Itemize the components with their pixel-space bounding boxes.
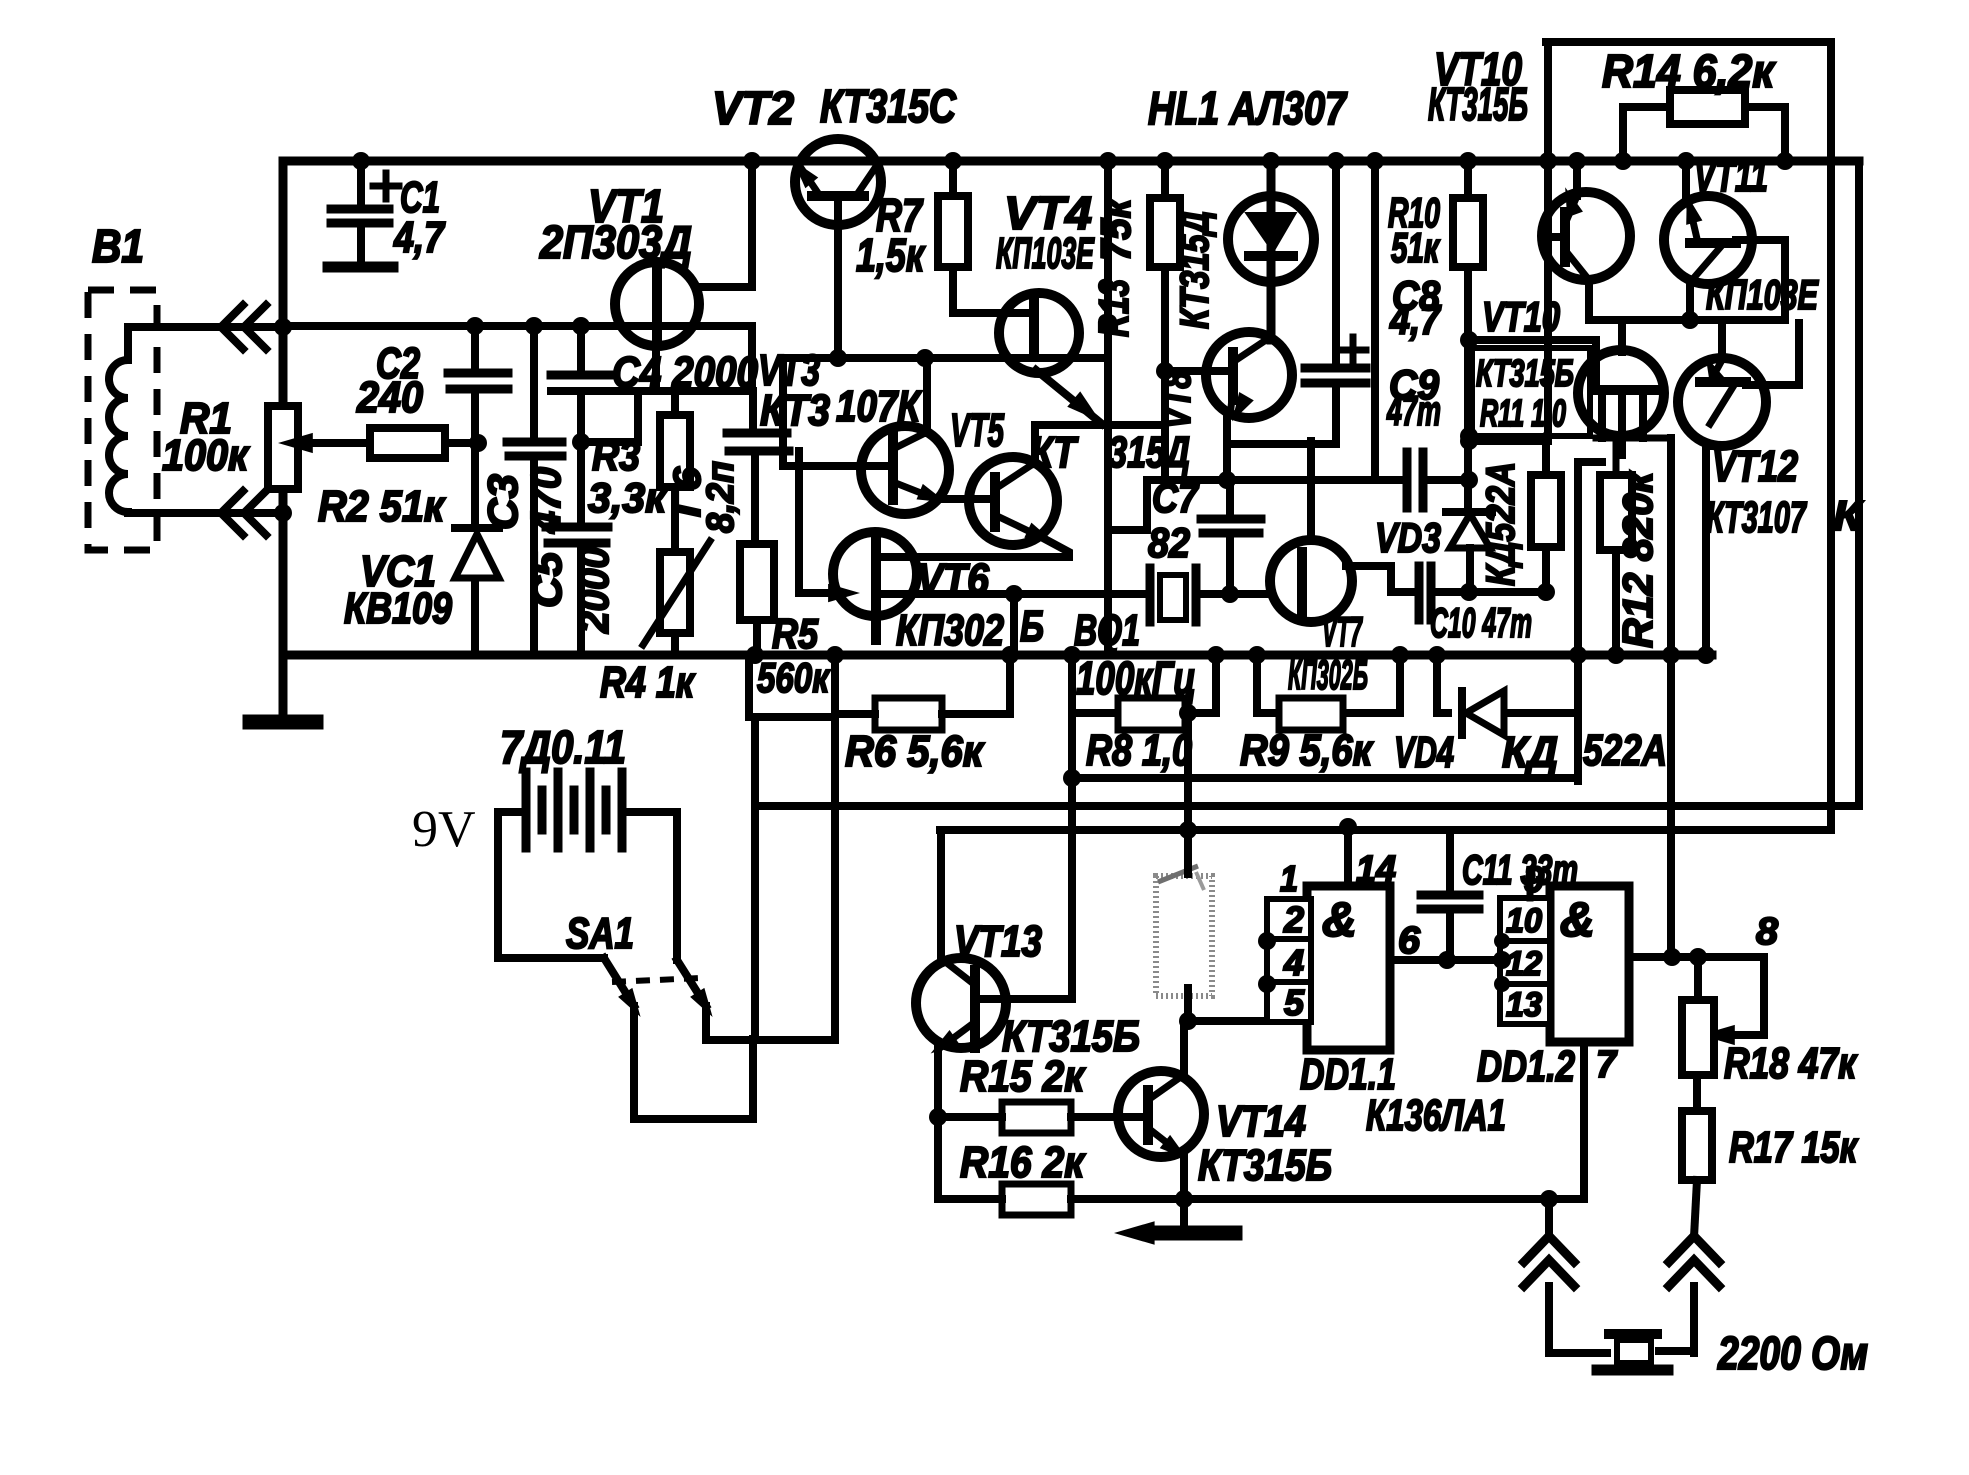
transistor VT8: [1206, 332, 1292, 426]
thermistor R4: [643, 510, 710, 655]
svg-text:13: 13: [1506, 986, 1542, 1024]
resistor R5: [740, 544, 774, 620]
transistor VT7 (FET): [1270, 540, 1352, 622]
wire: box left x1548: [1544, 42, 1552, 441]
wire: VT12 collector: [1718, 320, 1726, 358]
wire: VD3 to C10 line: [1466, 548, 1474, 592]
transistor VT2: [787, 139, 881, 225]
wire: C11 stem: [1446, 830, 1454, 960]
pin box 2: [1267, 899, 1311, 940]
label C6 rotated: [667, 461, 742, 533]
label HL1: [1148, 82, 1348, 134]
wire: VT5 emitter to VT6 drain: [878, 538, 1069, 557]
wire: R3 stem: [671, 391, 679, 510]
label 9V: [412, 801, 476, 858]
wire: R9 loop: [1257, 655, 1400, 713]
capacitor C9: [1407, 452, 1423, 508]
pin box 12: [1500, 941, 1550, 984]
resistor R18: [1682, 1000, 1714, 1075]
svg-text:R2 51к: R2 51к: [318, 482, 446, 531]
capacitor C10: [1419, 566, 1431, 620]
wire: x755 vertical: [751, 717, 759, 1039]
svg-text:R4 1к: R4 1к: [600, 658, 696, 707]
wire: VT6 gate feedback: [799, 451, 860, 602]
svg-text:С3: С3: [479, 474, 526, 530]
svg-text:7: 7: [1596, 1044, 1618, 1086]
wire: bottom common rail: [283, 651, 1712, 660]
label C10: [1430, 599, 1532, 646]
wire: x1859 vertical: [1855, 161, 1863, 806]
svg-text:240: 240: [356, 373, 423, 422]
logic DD1.1 box: [1307, 886, 1390, 1050]
wire: HL1 stems: [1267, 161, 1276, 340]
svg-text:SА1: SА1: [566, 909, 634, 958]
label K136LA1: [1366, 1091, 1506, 1140]
svg-text:КТ: КТ: [1030, 428, 1079, 477]
wire: R6 wires: [835, 655, 1010, 714]
svg-text:КП103Е: КП103Е: [996, 229, 1095, 278]
svg-text:100к: 100к: [162, 431, 250, 480]
label VT1: [539, 180, 692, 268]
svg-text:12: 12: [1506, 945, 1542, 983]
label pin6: [1398, 920, 1421, 962]
wire: R11 top link: [1469, 441, 1546, 475]
label pin1: [1280, 858, 1298, 899]
label R7: [856, 189, 926, 281]
wire: y778 line: [1072, 774, 1578, 782]
label KT315D: [1030, 428, 1190, 477]
wire: VT10 left jog: [1578, 458, 1602, 466]
label VT3: [758, 346, 922, 435]
svg-text:С5: С5: [523, 551, 570, 608]
label VT6: [917, 555, 989, 604]
resistor R6: [875, 698, 942, 730]
resistor R8: [1118, 698, 1185, 730]
svg-text:VТ14: VТ14: [1216, 1097, 1306, 1146]
wire: VT5 collector: [1035, 425, 1165, 462]
svg-text:3,3к: 3,3к: [588, 474, 668, 521]
wire: VT13 base: [978, 995, 1072, 1003]
label VT13 type: [1002, 1012, 1140, 1061]
wire: R13 branch: [1161, 161, 1169, 480]
svg-text:КТ315Б: КТ315Б: [1428, 78, 1528, 130]
svg-text:VТ7: VТ7: [1322, 608, 1363, 655]
resistor R16: [1002, 1184, 1071, 1215]
label VT13: [954, 917, 1042, 966]
label VT7 type: [1288, 651, 1368, 698]
wire: VT1 source to rail: [699, 161, 752, 287]
svg-text:НL1 АЛ307: НL1 АЛ307: [1148, 82, 1348, 134]
label R3: [588, 432, 668, 521]
jack chevron left: [1524, 1199, 1607, 1353]
capacitor C8: [1305, 368, 1366, 383]
svg-text:R11 1,0: R11 1,0: [1480, 393, 1566, 435]
label C1: [393, 173, 446, 262]
svg-text:51к: 51к: [1391, 224, 1440, 271]
pin dots DD1.2: [1494, 933, 1510, 992]
wire: R7 stem: [953, 161, 1034, 313]
svg-text:КТ315С: КТ315С: [820, 80, 957, 132]
svg-text:2П303Д: 2П303Д: [539, 216, 692, 268]
svg-text:10: 10: [1506, 902, 1542, 940]
wire: link y442: [581, 391, 638, 442]
svg-text:R13: R13: [1090, 279, 1137, 337]
transistor VT3: [861, 426, 950, 514]
label C8: [1389, 272, 1441, 343]
wire: x1014 down: [1010, 594, 1018, 655]
label KP103E: [1706, 271, 1819, 318]
svg-text:315Д: 315Д: [1108, 428, 1190, 477]
ground: [250, 655, 316, 722]
svg-text:R17 15к: R17 15к: [1729, 1123, 1859, 1172]
label R17: [1729, 1123, 1859, 1172]
label R14: [1602, 45, 1776, 97]
wire: R18 top: [1694, 957, 1702, 1000]
wire: VT3 collector: [923, 356, 931, 433]
wire: VT9 emitter: [1585, 280, 1593, 320]
label KT315D rotated: [1173, 211, 1217, 329]
svg-text:1: 1: [1280, 858, 1298, 899]
diode VD3: [1446, 512, 1492, 548]
label R2: [318, 482, 446, 531]
label VT7: [1322, 608, 1363, 655]
label 2200 Ohm: [1717, 1327, 1868, 1379]
label R8: [1086, 726, 1192, 775]
wire: C10 line: [1391, 588, 1546, 596]
label BQ1: [1074, 606, 1140, 655]
resistor R15: [1002, 1102, 1071, 1133]
svg-text:9V: 9V: [412, 801, 476, 858]
resistor R10: [1453, 198, 1483, 267]
wire: battery right: [622, 812, 677, 960]
label R5: [757, 610, 830, 701]
wire: VT9 collector: [1573, 161, 1581, 196]
wire: VT13 emitter: [934, 1048, 942, 1199]
svg-text:75к: 75к: [1092, 197, 1139, 261]
label pin7: [1596, 1044, 1618, 1086]
wire: VT13 collector: [937, 830, 945, 960]
svg-text:9: 9: [1524, 859, 1544, 900]
svg-text:С10 47т: С10 47т: [1430, 599, 1532, 646]
pin dots: [1258, 932, 1276, 993]
svg-text:R9 5,6к: R9 5,6к: [1240, 726, 1374, 775]
svg-text:4,7: 4,7: [1389, 296, 1441, 343]
resistor R13: [1150, 198, 1180, 267]
wire: VT7 to C10: [1346, 566, 1413, 592]
transistor VT6 (FET): [833, 532, 917, 640]
svg-text:4,7: 4,7: [393, 213, 446, 262]
label C7: [1148, 474, 1199, 566]
wire: VT10 link y340: [1469, 340, 1596, 390]
wire: x1072 vertical: [1006, 713, 1072, 999]
crystal BQ1: [1150, 568, 1196, 622]
svg-text:КТ315Б: КТ315Б: [1198, 1141, 1332, 1190]
wire: C1 stem: [357, 161, 365, 262]
label B1: [92, 220, 144, 272]
label pin8: [1756, 911, 1779, 953]
label R15: [960, 1052, 1086, 1101]
svg-text:DD1.2: DD1.2: [1477, 1042, 1575, 1091]
wire: pin8 wire: [1629, 953, 1764, 961]
wire: VT10 top stem: [1618, 320, 1626, 352]
svg-text:R5: R5: [772, 610, 819, 657]
svg-text:82: 82: [1148, 519, 1190, 566]
label VD4: [1394, 726, 1667, 777]
inductor B1 coil: [109, 327, 283, 513]
wire: C7 branch: [1226, 480, 1234, 594]
svg-text:8,2п: 8,2п: [700, 461, 742, 533]
resistor R7: [938, 196, 968, 267]
svg-text:R6 5,6к: R6 5,6к: [845, 727, 985, 776]
wire: pin9 stub: [1527, 878, 1534, 898]
capacitor C6: [727, 433, 789, 451]
resistor R9: [1279, 698, 1343, 730]
wire: R11 bottom: [1542, 547, 1550, 592]
wire: VT1 gate stem: [652, 346, 660, 391]
transistor VT10: [1578, 350, 1664, 455]
label C1 plus: [373, 173, 399, 199]
transistor VT1 (FET): [615, 262, 699, 346]
wire: C9 line: [1147, 476, 1469, 484]
varicap VC1: [455, 528, 499, 578]
wire: crystal to VT7: [1196, 590, 1271, 598]
wire: x835 vertical: [831, 655, 839, 1036]
label VT10 lower: [1482, 293, 1560, 340]
svg-text:6: 6: [1398, 920, 1421, 962]
transistor VT12: [1678, 352, 1766, 446]
svg-text:С4 2000: С4 2000: [612, 348, 758, 397]
led HL1: [1228, 196, 1314, 282]
label C3 rotated: [479, 467, 569, 534]
label SA1: [566, 909, 634, 958]
wire: gate node line y391: [551, 387, 752, 395]
svg-text:КД: КД: [1502, 728, 1558, 777]
svg-text:VD3: VD3: [1375, 514, 1441, 561]
wire: C6 stem: [753, 391, 755, 544]
wire: x1671 long: [1667, 438, 1675, 957]
wire: VT3 emitter to VT5 base: [936, 495, 993, 503]
label VT2: [712, 80, 957, 134]
wire: R18 loop: [1700, 957, 1764, 1045]
label battery: [500, 721, 626, 773]
wire: VT10 comb: [1596, 438, 1671, 475]
resistor R2: [370, 428, 445, 458]
capacitor C1: [328, 209, 393, 267]
wire: R10 branch: [1464, 161, 1472, 512]
svg-text:КД522А: КД522А: [1479, 462, 1523, 586]
svg-text:2000: 2000: [570, 547, 617, 634]
capacitor C11: [1421, 895, 1479, 909]
wire: node line y356: [783, 354, 1108, 362]
svg-text:&: &: [1322, 894, 1357, 947]
label VT4: [996, 187, 1095, 278]
wire: SA1 right pole: [706, 1006, 835, 1040]
label 100kHz: [1076, 652, 1196, 704]
svg-text:R12 820к: R12 820к: [1614, 470, 1661, 648]
transistor VT5: [969, 457, 1058, 550]
phone BF1 2200 Ohm: [1597, 1286, 1694, 1370]
capacitor C5: [546, 527, 608, 543]
wire: box right x1831: [1827, 42, 1835, 829]
svg-text:5: 5: [1284, 982, 1305, 1023]
wire: R16 wires: [938, 1195, 1184, 1203]
wire: VT11 emitter: [1686, 280, 1694, 320]
pin box 4: [1267, 939, 1311, 983]
wire: C8 stem: [1332, 161, 1340, 444]
label DD1.2: [1477, 1042, 1575, 1091]
svg-text:VТ11: VТ11: [1694, 152, 1768, 201]
label VT8 rotated: [1155, 370, 1199, 429]
wire: battery left: [498, 812, 604, 958]
label R6: [845, 727, 985, 776]
pin box 5: [1267, 982, 1311, 1023]
inductor B1 dashed box: [88, 290, 157, 550]
svg-text:8: 8: [1756, 911, 1779, 953]
label K stray: [1833, 492, 1864, 539]
svg-text:VТ2: VТ2: [712, 82, 794, 134]
label DD1.1 amp: [1322, 894, 1357, 947]
capacitor C2: [448, 373, 508, 389]
transistor VT4 (FET): [999, 293, 1107, 429]
wire: VD4 loop: [1437, 655, 1578, 713]
wire: VT14 base: [1120, 1113, 1148, 1121]
wire: R8 loop: [1072, 655, 1216, 713]
wire: VT11 collector: [1682, 161, 1690, 200]
label KD522A rotated: [1479, 462, 1523, 586]
label VT14: [1198, 1097, 1332, 1190]
ground at VT14: [1114, 1221, 1235, 1245]
svg-text:Б: Б: [1020, 602, 1044, 651]
svg-text:R14 6,2к: R14 6,2к: [1602, 45, 1776, 97]
label C8 plus: [1340, 337, 1366, 363]
svg-text:R3: R3: [592, 432, 640, 479]
label pin14: [1356, 849, 1396, 891]
wire: VT2 emitter-collector stem: [834, 196, 842, 358]
label pin9: [1524, 859, 1544, 900]
wire: VT8 base: [1165, 367, 1233, 375]
label R9: [1240, 726, 1374, 775]
resistor R1 (pot): [268, 406, 298, 489]
svg-text:2: 2: [1283, 899, 1304, 940]
wire: +9V top supply rail: [283, 157, 1859, 166]
svg-text:VТ13: VТ13: [954, 917, 1042, 966]
pin box 13: [1500, 984, 1550, 1024]
wire: VT14 collector: [1180, 1021, 1188, 1076]
svg-text:107К: 107К: [836, 382, 922, 431]
label VT5: [950, 404, 1005, 456]
svg-text:14: 14: [1356, 849, 1396, 891]
svg-text:2200 Ом: 2200 Ом: [1717, 1327, 1868, 1379]
wire: R5 loop: [749, 655, 835, 717]
svg-text:VТ5: VТ5: [950, 404, 1005, 456]
wire: C3 branch: [530, 326, 538, 655]
battery GB1 7D0.11: [526, 772, 622, 848]
label R18: [1724, 1039, 1858, 1088]
capacitor C4: [551, 371, 612, 380]
svg-text:&: &: [1560, 894, 1595, 947]
wire: pin5 wire: [1188, 1017, 1267, 1025]
wire: VT9 base: [1548, 233, 1565, 241]
wire: y436 link: [1469, 432, 1472, 440]
label KP302B: [896, 602, 1044, 655]
label box VT10: [1472, 348, 1590, 436]
label C11: [1462, 846, 1578, 893]
label VT12: [1706, 442, 1808, 542]
switch SA1: [604, 958, 720, 1021]
svg-text:522А: 522А: [1583, 726, 1667, 775]
resistor R11: [1531, 475, 1561, 547]
wire: C2 VC1 branch: [471, 326, 479, 655]
transistor VT11: [1664, 193, 1752, 284]
svg-text:КП302Б: КП302Б: [1288, 651, 1368, 698]
svg-text:К136ЛА1: К136ЛА1: [1366, 1091, 1506, 1140]
label R4: [600, 658, 696, 707]
wire: R2 to VC1 line: [445, 439, 478, 447]
svg-text:КТ3107: КТ3107: [1706, 493, 1808, 542]
svg-text:560к: 560к: [757, 654, 830, 701]
wire: R12 bottom: [1612, 550, 1620, 655]
svg-text:R15 2к: R15 2к: [960, 1052, 1086, 1101]
wire: C4 C5 branch: [577, 326, 585, 655]
svg-text:R16 2к: R16 2к: [960, 1138, 1086, 1187]
label C2: [356, 339, 423, 422]
wire: R17 leads: [1694, 1075, 1697, 1237]
wire: VT12 base: [1746, 323, 1799, 385]
resistor R14: [1670, 90, 1745, 124]
wire: VT14 emitter: [1180, 1155, 1188, 1228]
wire: oscillator line to crystal: [876, 590, 1147, 598]
resistor R3: [660, 415, 690, 487]
resistor R12: [1600, 475, 1632, 550]
label DD1.2 amp: [1560, 894, 1595, 947]
wire: R14 leads: [1623, 107, 1785, 161]
svg-text:В1: В1: [92, 220, 144, 272]
diode VD4: [1462, 691, 1504, 735]
svg-text:47т: 47т: [1386, 387, 1441, 434]
capacitor C7: [1201, 519, 1261, 533]
wire: left vertical bus: [279, 161, 288, 655]
wire: line A: [755, 802, 1859, 810]
jack chevron right: [1669, 1236, 1719, 1353]
wire: VT8 emitter: [1227, 414, 1336, 480]
transistor VT13: [916, 958, 1006, 1060]
ghost erased component: [1156, 866, 1212, 996]
label R1: [162, 394, 250, 480]
wire: VT11 base: [1736, 240, 1785, 320]
wire: antenna rail to VT1 gate: [283, 326, 752, 391]
svg-text:1,5к: 1,5к: [856, 229, 926, 281]
wire: x1706 vertical: [1702, 446, 1710, 655]
wire: x1108 vertical: [1104, 161, 1112, 655]
wire: R15 wires: [938, 1113, 1120, 1121]
label VD3: [1375, 514, 1441, 561]
wire: y320 line: [1589, 316, 1785, 324]
wire: VT12 emitter: [1706, 442, 1722, 450]
svg-text:VD4: VD4: [1394, 728, 1454, 777]
svg-text:КВ109: КВ109: [344, 584, 452, 633]
wire: c9 lower link: [1113, 480, 1147, 530]
capacitor C3: [507, 442, 562, 456]
wire: pin14: [1344, 826, 1352, 886]
svg-text:7Д0.11: 7Д0.11: [500, 721, 626, 773]
label R10C9: [1386, 189, 1441, 434]
label C5 rotated: [523, 547, 617, 634]
wire: x1188 vd4 tap: [1184, 713, 1192, 830]
svg-text:КП103Е: КП103Е: [1706, 271, 1819, 318]
label VT10 top: [1428, 43, 1528, 130]
label DD1.1: [1300, 1050, 1396, 1099]
transistor VT14: [1118, 1071, 1204, 1166]
